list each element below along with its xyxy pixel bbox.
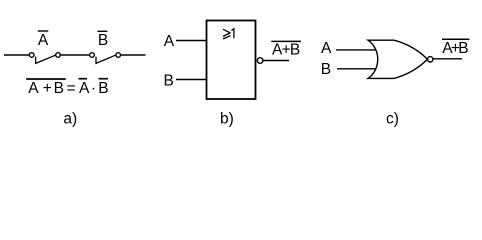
svg-text:b): b) — [220, 110, 234, 127]
svg-text:B: B — [164, 73, 174, 90]
wire input A (c) — [336, 49, 378, 51]
switch B arm — [96, 55, 116, 63]
svg-text:B: B — [98, 32, 108, 49]
inversion bubble (c) — [428, 57, 433, 62]
svg-text:A+B: A+B — [442, 40, 468, 57]
svg-text:A: A — [321, 40, 332, 57]
switch A arm — [36, 55, 56, 63]
svg-text:a): a) — [63, 110, 77, 127]
wire between switches (a) — [60, 54, 89, 56]
svg-text:B: B — [321, 61, 331, 78]
inversion bubble (b) — [257, 58, 263, 64]
wire input A (b) — [176, 40, 206, 42]
contact circle right of switch B — [116, 53, 121, 58]
wire input B (c) — [337, 68, 378, 70]
output wire (b) — [263, 60, 289, 62]
svg-text:A: A — [38, 32, 49, 49]
wire input B (b) — [176, 79, 206, 81]
output wire (c) — [433, 58, 462, 60]
label B-bar over switch B — [97, 31, 108, 49]
contact circle left of switch A — [29, 53, 34, 58]
output label A+B bar (c) — [442, 39, 470, 57]
OR gate U2 (distinctive shape) — [368, 40, 428, 78]
contact circle right of switch A — [56, 53, 61, 58]
svg-text:A: A — [164, 33, 175, 50]
label A-bar over switch A — [38, 31, 49, 49]
wire left lead (a) — [4, 54, 30, 56]
gate function label >=1 — [223, 29, 234, 39]
svg-text:c): c) — [386, 110, 399, 127]
OR gate box U1 (IEC symbol) — [207, 21, 256, 100]
svg-text:A+B: A+B — [272, 41, 300, 58]
contact circle left of switch B — [90, 53, 95, 58]
equation A+B = A-bar . B-bar — [26, 79, 108, 98]
output label A+B bar (b) — [271, 41, 301, 58]
wire right lead (a) — [121, 54, 146, 56]
